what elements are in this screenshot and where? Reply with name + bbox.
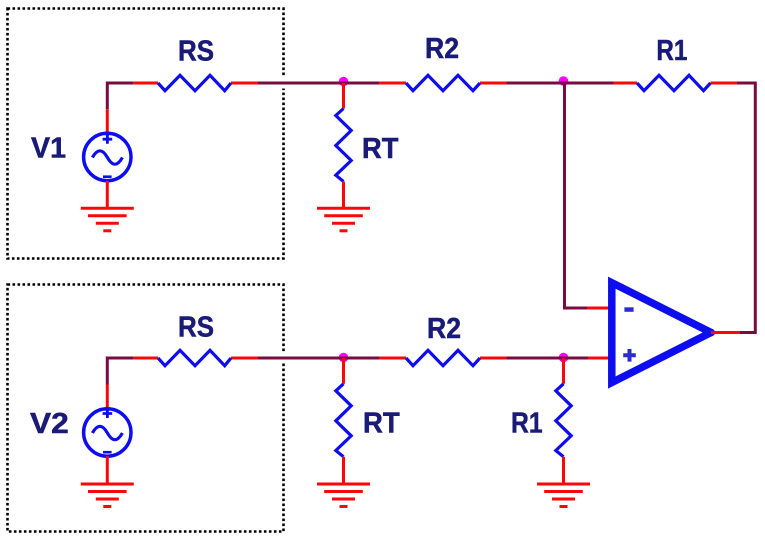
op-amp U1 triangle [612, 283, 711, 383]
op-amp U1 output lead [711, 331, 740, 334]
wire R2b-right to node D [507, 357, 564, 360]
resistor RT (top) lead to ground [342, 182, 345, 208]
op-amp U1 minus symbol [624, 307, 633, 312]
resistor R2 (top) zigzag [406, 75, 480, 90]
wire V2 top stub (corner at V2) [107, 358, 133, 385]
svg-text:RT: RT [362, 133, 399, 165]
node B junction dot [559, 76, 569, 86]
resistor R2b (bottom) zigzag [406, 350, 480, 365]
svg-text:R2: R2 [425, 33, 459, 65]
resistor RS (top) zigzag [158, 75, 231, 90]
source V1 sine wave [92, 151, 122, 164]
ground below V1 [81, 208, 134, 231]
wire V1 top stub (corner at V1) [107, 83, 133, 109]
ground below RT2 [317, 484, 370, 507]
svg-text:R2: R2 [427, 313, 461, 345]
svg-text:RS: RS [178, 312, 214, 344]
svg-text:V2: V2 [30, 408, 69, 440]
source V1 circle [84, 133, 131, 180]
svg-text:RS: RS [178, 36, 214, 68]
source V2 bottom lead [106, 456, 109, 483]
wire R1-right to output (right vertical) [737, 83, 755, 333]
resistor RT (top) zigzag [336, 109, 351, 182]
wire node A to R2-left [344, 82, 380, 85]
source V1 top lead [106, 109, 109, 136]
resistor RS2 (bottom) leads [134, 357, 158, 360]
op-amp U1 plus symbol [623, 349, 636, 362]
wire feedback node B down to op-amp inverting input [565, 83, 588, 308]
svg-text:R1: R1 [656, 35, 687, 67]
ground below R1b [537, 484, 590, 507]
source V2 circle [84, 409, 131, 456]
white gap where top rail crosses box border [282, 78, 286, 89]
svg-text:R1: R1 [511, 407, 543, 439]
dashed box around V2 source network [8, 285, 284, 532]
op-amp U1 apex tip [708, 329, 715, 336]
svg-text:RT: RT [363, 407, 400, 439]
node D junction dot [559, 353, 569, 363]
source V1 plus mark [103, 135, 113, 144]
wire node B to R1-left [564, 82, 614, 85]
source V2 plus mark [103, 409, 113, 418]
white gap where bottom rail crosses box border [282, 353, 286, 364]
resistor RT2 (bottom) lead to ground [342, 457, 345, 483]
resistor RS (top) leads [134, 82, 158, 85]
source V1 minus mark [103, 175, 112, 178]
ground below V2 [81, 484, 134, 507]
svg-text:V1: V1 [31, 132, 66, 164]
node C junction dot [339, 353, 349, 363]
resistor R1b (bottom) zigzag [556, 384, 571, 457]
ground below RT (top) [317, 208, 370, 231]
dashed box around V1 source network [8, 9, 284, 259]
wire node D to op-amp noninverting input [564, 357, 589, 360]
resistor R2 (top) leads [379, 82, 406, 85]
op-amp U1 noninverting input lead [588, 357, 614, 360]
resistor R1 (top) leads [614, 82, 638, 85]
source V2 sine wave [92, 426, 122, 439]
source V1 bottom lead [106, 181, 109, 208]
resistor RS2 (bottom) zigzag [158, 350, 231, 365]
node A junction dot [339, 77, 349, 87]
source V2 minus mark [103, 451, 112, 454]
wire R2-right to node B [507, 82, 564, 85]
resistor R1b (bottom) lead to ground [562, 457, 565, 483]
source V2 top lead [106, 385, 109, 412]
resistor R2b (bottom) leads [379, 357, 406, 360]
resistor R1b (bottom) lead from node D [562, 358, 565, 384]
resistor R1 (top) zigzag [637, 75, 711, 90]
resistor RT2 (bottom) zigzag [336, 384, 351, 457]
resistor RT2 (bottom) lead from node C [342, 358, 345, 384]
resistor RT (top) lead from node A [342, 83, 345, 109]
wire node C to R2b-left [344, 357, 380, 360]
wire RS2-right to node C [258, 357, 344, 360]
wire RS-right to node A [258, 82, 344, 85]
op-amp U1 inverting input lead [587, 307, 614, 310]
